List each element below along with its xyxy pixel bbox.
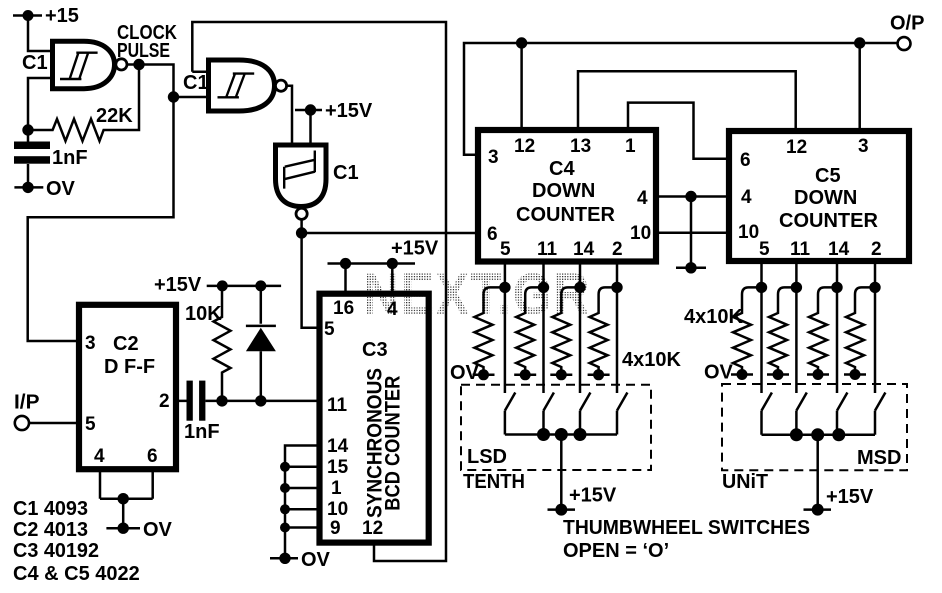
node +15V for gate C1c <box>295 100 373 145</box>
svg-text:C1: C1 <box>22 52 48 74</box>
svg-text:11: 11 <box>537 239 558 260</box>
svg-text:5: 5 <box>324 319 335 340</box>
ground OV resistor bank LSD <box>450 362 610 384</box>
wire C2 pins 4,6 to OV <box>100 469 153 528</box>
node junctions C5 pin taps <box>756 282 881 293</box>
ground OV tick center <box>676 262 706 273</box>
wire gate C1b output to gate C1c input <box>287 86 292 145</box>
wire gate C1c output to C4 pin6 <box>302 220 478 233</box>
capacitor C-diff 1nF <box>176 381 320 443</box>
resistor bank 4x10K LSD <box>475 287 682 374</box>
svg-text:22K: 22K <box>96 105 133 127</box>
node +15V rail C2 <box>154 274 281 296</box>
wire C4 pin10 to C5 pin10 <box>656 231 729 234</box>
thumbwheel switch box MSD <box>722 384 907 493</box>
svg-text:C3: C3 <box>362 339 388 361</box>
node junctions C4 pin taps <box>499 282 623 293</box>
node +15V LSD <box>548 435 617 516</box>
switch blades MSD <box>762 393 886 435</box>
wire gate C1c output to C3 pin5 <box>302 233 320 328</box>
svg-text:OV: OV <box>704 362 734 384</box>
capacitor C-osc 1nF <box>14 130 88 187</box>
wire C4 bottom pins down <box>505 262 617 394</box>
svg-text:1nF: 1nF <box>184 421 220 443</box>
ground OV oscillator <box>14 178 75 200</box>
svg-text:+15: +15 <box>45 5 79 27</box>
IC C4 down counter <box>478 130 656 262</box>
svg-text:10: 10 <box>738 222 759 243</box>
svg-text:OV: OV <box>46 178 76 200</box>
svg-text:10: 10 <box>327 499 348 520</box>
svg-text:16: 16 <box>333 298 354 319</box>
wire gate C1b inputs <box>192 70 210 73</box>
svg-text:C3 40192: C3 40192 <box>13 540 99 562</box>
resistor R2 10K <box>185 286 231 401</box>
IC C5 down counter <box>729 131 909 261</box>
wire C4 pin1 to C5 pin6 <box>628 103 729 159</box>
svg-text:5: 5 <box>759 239 770 260</box>
svg-text:3: 3 <box>488 147 499 168</box>
svg-text:2: 2 <box>159 391 170 412</box>
svg-text:1nF: 1nF <box>52 147 88 169</box>
svg-text:3: 3 <box>85 333 96 354</box>
svg-text:2: 2 <box>871 239 882 260</box>
node gate C1c output <box>296 227 307 238</box>
node I/P input <box>14 392 40 431</box>
svg-text:6: 6 <box>740 150 751 171</box>
svg-text:5: 5 <box>85 414 96 435</box>
diode D1 <box>246 286 276 401</box>
wire common bar LSD <box>505 433 617 436</box>
svg-text:THUMBWHEEL SWITCHES: THUMBWHEEL SWITCHES <box>563 517 810 539</box>
svg-text:MSD: MSD <box>857 447 901 469</box>
node junctions on bus <box>280 462 290 533</box>
node RC junction <box>22 124 33 135</box>
svg-text:C1: C1 <box>333 162 359 184</box>
svg-text:OV: OV <box>301 549 331 571</box>
resistor bank 4x10K MSD <box>684 287 875 374</box>
ground OV C2 <box>106 519 172 541</box>
svg-text:I/P: I/P <box>14 392 40 414</box>
wire C4 pin4 to C5 pin4 <box>656 195 729 198</box>
svg-text:COUNTER: COUNTER <box>779 210 878 232</box>
svg-text:+15V: +15V <box>569 485 617 507</box>
svg-text:11: 11 <box>790 239 811 260</box>
svg-text:BCD COUNTER: BCD COUNTER <box>381 375 405 510</box>
svg-text:13: 13 <box>570 136 591 157</box>
wire C3 left bus pins 14,15,1,10,9 <box>285 446 320 559</box>
svg-text:4: 4 <box>94 446 105 467</box>
IC C2 D flip-flop <box>79 305 176 469</box>
svg-text:+15V: +15V <box>391 238 439 260</box>
svg-text:15: 15 <box>327 457 349 478</box>
svg-text:C1: C1 <box>183 72 209 94</box>
svg-text:5: 5 <box>500 239 511 260</box>
switch blades LSD <box>505 393 628 435</box>
svg-text:4: 4 <box>741 187 752 208</box>
node junction C5 pin3 on rail <box>854 37 865 48</box>
svg-text:OV: OV <box>143 519 173 541</box>
svg-text:4: 4 <box>387 299 398 320</box>
svg-text:PULSE: PULSE <box>117 40 170 62</box>
svg-text:12: 12 <box>514 136 535 157</box>
svg-text:OPEN = ‘O’: OPEN = ‘O’ <box>563 540 669 562</box>
node CLOCK PULSE <box>117 22 177 70</box>
svg-text:+15V: +15V <box>826 486 874 508</box>
svg-text:9: 9 <box>330 518 341 539</box>
svg-text:4x10K: 4x10K <box>622 349 681 371</box>
svg-text:+15V: +15V <box>154 274 202 296</box>
wire gate C1a bottom input to RC node <box>28 78 50 130</box>
wire C5 bottom pins down <box>762 261 876 393</box>
ground OV C3 bus <box>270 549 331 571</box>
svg-text:C2 4013: C2 4013 <box>13 519 88 541</box>
wire common bar MSD <box>762 434 876 437</box>
svg-text:UNiT: UNiT <box>722 471 768 493</box>
svg-text:OV: OV <box>450 362 480 384</box>
thumbwheel switch box LSD <box>461 385 651 493</box>
svg-text:2: 2 <box>612 239 623 260</box>
svg-text:TENTH: TENTH <box>463 471 525 493</box>
node junction pin4 link <box>685 191 696 202</box>
node junctions on bar MSD <box>790 428 845 441</box>
wire rail C4 pin3/pin12 to C5 pin3 and O/P <box>464 43 897 155</box>
svg-text:LSD: LSD <box>467 446 507 468</box>
svg-text:O/P: O/P <box>890 13 924 35</box>
svg-text:3: 3 <box>858 136 869 157</box>
wire I/P to C2 pin5 <box>29 422 79 425</box>
svg-text:11: 11 <box>327 395 348 416</box>
svg-text:DOWN: DOWN <box>794 187 857 209</box>
node +15V MSD <box>804 435 874 516</box>
svg-text:1: 1 <box>331 478 342 499</box>
svg-text:4x10K: 4x10K <box>684 306 743 328</box>
svg-text:+15V: +15V <box>325 100 373 122</box>
svg-text:12: 12 <box>786 137 807 158</box>
node junction C4 pin12 on rail <box>516 37 527 48</box>
svg-text:14: 14 <box>573 239 595 260</box>
node junction diode bottom <box>255 395 266 406</box>
svg-text:6: 6 <box>487 224 498 245</box>
op-amp U2 gate C1b schmitt NAND <box>183 60 287 111</box>
resistor R1 22K <box>28 65 139 142</box>
op-amp U3 gate C1c schmitt NAND down <box>276 145 359 219</box>
svg-text:1: 1 <box>625 136 636 157</box>
node O/P output <box>890 13 924 51</box>
caption thumbwheel <box>563 517 810 562</box>
svg-text:10K: 10K <box>185 303 222 325</box>
wire clock node to gate C1b input and C2 pin3 <box>28 65 174 342</box>
svg-text:6: 6 <box>147 446 158 467</box>
svg-text:DOWN: DOWN <box>532 180 595 202</box>
wire junction down to OV tick <box>690 197 693 268</box>
wire to gate C1b lower input <box>174 96 209 99</box>
wire feedback C3 pin12 to gate C1b top input <box>192 22 446 561</box>
wire +15 to gate C1a top input <box>28 16 50 52</box>
svg-text:14: 14 <box>828 239 850 260</box>
svg-text:C4: C4 <box>549 158 575 180</box>
node junction 10K bottom <box>216 395 227 406</box>
svg-text:C1 4093: C1 4093 <box>13 498 88 520</box>
svg-text:D F-F: D F-F <box>104 356 155 378</box>
op-amp U1 gate C1a schmitt NAND <box>22 41 127 88</box>
svg-text:4: 4 <box>637 188 648 209</box>
node junction gate C1b lower input <box>168 91 179 102</box>
svg-text:COUNTER: COUNTER <box>516 204 615 226</box>
ground OV resistor bank MSD <box>704 362 866 384</box>
watermark NEXT.GR <box>363 262 591 327</box>
node +15V rail C3 <box>328 238 439 294</box>
wire C4 pin13 to C5 pin12 <box>578 71 796 131</box>
legend parts list <box>13 498 140 585</box>
svg-text:12: 12 <box>362 518 383 539</box>
svg-text:10: 10 <box>630 223 651 244</box>
IC C3 synchronous BCD counter <box>320 294 429 543</box>
node +15 supply top-left <box>13 5 79 27</box>
svg-text:C4 & C5 4022: C4 & C5 4022 <box>13 563 140 585</box>
svg-text:14: 14 <box>327 436 349 457</box>
node junctions on bar LSD <box>537 428 587 441</box>
svg-text:C2: C2 <box>113 333 139 355</box>
svg-text:C5: C5 <box>815 165 841 187</box>
node junction C2 ground <box>118 493 129 504</box>
